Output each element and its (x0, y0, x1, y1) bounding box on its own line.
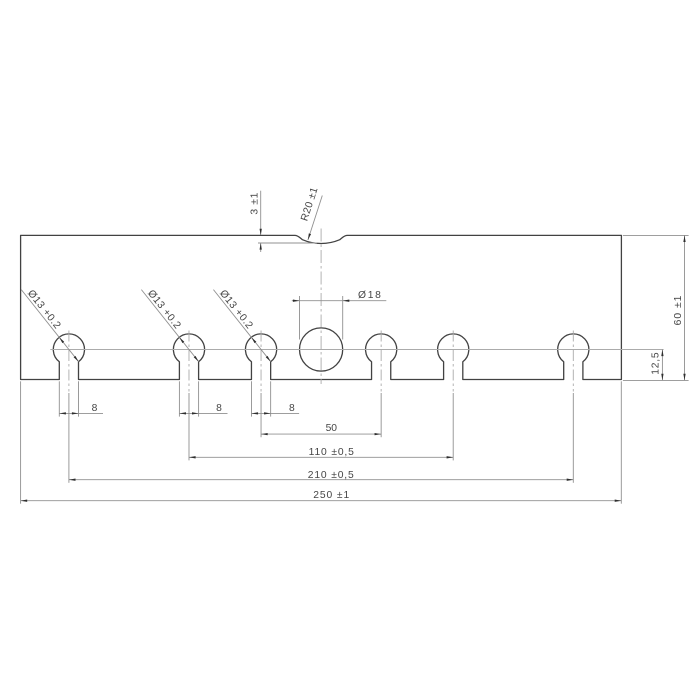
horizontal centerline through all holes (50, 349, 663, 351)
radius dimension R20 +-1 leader (299, 186, 322, 240)
svg-text:210 ±0,5: 210 ±0,5 (308, 470, 355, 481)
diameter dimension D18 (292, 290, 387, 339)
dimension 50 inner slot spacing (261, 423, 381, 435)
dimension 60 +-1 plate height (623, 235, 689, 380)
center hole D18 (300, 328, 343, 371)
dimension 8 slot width 2 (179, 381, 227, 416)
svg-text:3 ±1: 3 ±1 (249, 192, 260, 215)
diameter dimension D13 +0.2 slot 3 (213, 288, 270, 362)
vertical centerline slot 5 (452, 331, 454, 392)
dimension 12,5 hole center height (650, 350, 663, 381)
svg-text:8: 8 (216, 403, 222, 414)
svg-text:50: 50 (326, 423, 338, 434)
dimension 8 slot width 3 (251, 381, 299, 416)
vertical centerline slot 3 (260, 331, 262, 392)
svg-text:8: 8 (92, 403, 98, 414)
vertical centerline slot 4 (380, 331, 382, 392)
vertical centerline slot 1 (68, 331, 70, 392)
extension line slot 2 center (188, 393, 190, 460)
svg-text:60 ±1: 60 ±1 (673, 295, 684, 326)
extension line slot 1 center (68, 393, 70, 483)
diameter dimension D13 +0.2 slot 2 (141, 288, 198, 362)
svg-text:12,5: 12,5 (650, 352, 661, 375)
svg-text:8: 8 (289, 403, 295, 414)
extension line slot 6 center (572, 393, 574, 483)
dimension 8 slot width 1 (59, 381, 103, 416)
svg-text:Ø18: Ø18 (358, 290, 383, 301)
dimension 210 +-0,5 outer slot spacing (69, 470, 573, 481)
dimension 250 +-1 plate width (21, 381, 622, 503)
vertical centerline slot 2 (188, 331, 190, 392)
plate outline with R20 notch and six keyhole slots (21, 235, 622, 379)
extension line slot 5 center (452, 393, 454, 460)
svg-text:250 ±1: 250 ±1 (313, 490, 350, 501)
diameter dimension D13 +0.2 slot 1 (21, 288, 78, 362)
vertical centerline center hole (320, 229, 322, 385)
extension line slot 3 center (260, 393, 262, 437)
svg-text:110 ±0,5: 110 ±0,5 (309, 447, 355, 458)
extension line slot 4 center (380, 393, 382, 437)
dimension 110 +-0,5 slot spacing (189, 447, 453, 458)
dimension 3 +-1 notch depth (249, 191, 317, 252)
vertical centerline slot 6 (572, 331, 574, 392)
